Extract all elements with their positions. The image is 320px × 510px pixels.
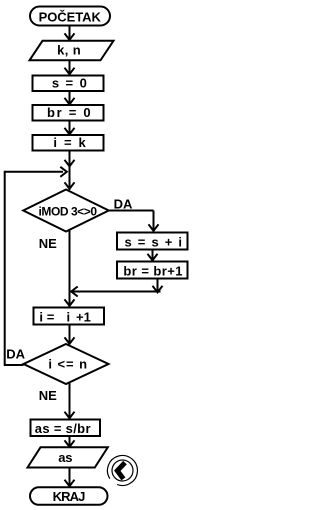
svg-text:i <= n: i <= n (48, 357, 87, 372)
svg-text:i: i (67, 310, 71, 325)
svg-text:POČETAK: POČETAK (39, 10, 102, 25)
svg-text:s = s + i: s = s + i (125, 234, 183, 249)
svg-text:iMOD 3<>0: iMOD 3<>0 (39, 205, 98, 219)
svg-text:i = k: i = k (53, 135, 86, 150)
svg-text:=: = (47, 310, 55, 325)
svg-text:DA: DA (114, 197, 133, 212)
svg-text:k, n: k, n (57, 43, 81, 58)
svg-text:DA: DA (6, 347, 25, 362)
svg-text:+1: +1 (76, 310, 91, 325)
svg-text:as = s/br: as = s/br (35, 421, 91, 436)
svg-text:br = br+1: br = br+1 (123, 264, 182, 279)
svg-text:i: i (39, 310, 43, 325)
svg-text:br = 0: br = 0 (47, 105, 91, 120)
svg-text:NE: NE (39, 388, 57, 403)
svg-text:KRAJ: KRAJ (53, 489, 86, 504)
svg-text:NE: NE (39, 236, 57, 251)
svg-text:as: as (58, 450, 72, 465)
svg-text:s = 0: s = 0 (52, 75, 87, 90)
